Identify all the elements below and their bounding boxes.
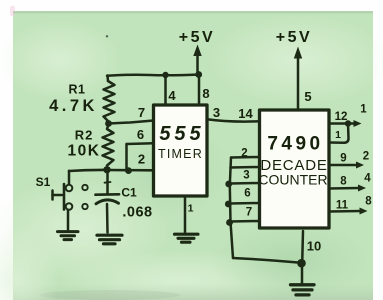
wire 7490 pin2 stub xyxy=(231,156,260,159)
svg-text:TIMER: TIMER xyxy=(158,147,203,161)
svg-text:1: 1 xyxy=(360,104,367,116)
wire pin6-pin2 connector xyxy=(125,144,128,170)
ground under 555 xyxy=(175,234,199,242)
wire R1 top stub xyxy=(106,76,109,82)
wire trigger node xyxy=(69,170,153,171)
svg-text:3: 3 xyxy=(213,105,220,120)
wire pin12 to pin1 loop xyxy=(330,124,349,143)
svg-text:2: 2 xyxy=(363,151,369,163)
S1 actuator bar xyxy=(63,184,66,210)
IC 7490 decade counter U2 xyxy=(260,110,330,228)
svg-text:4: 4 xyxy=(168,88,176,103)
wire 555 output to 7490 clock xyxy=(207,119,260,121)
S1 open contact mark bottom xyxy=(82,204,87,209)
svg-text:7: 7 xyxy=(246,207,252,219)
svg-text:1: 1 xyxy=(188,203,194,215)
svg-text:R1: R1 xyxy=(69,83,86,97)
power +5V arrow right (7490 pin5) xyxy=(294,47,302,111)
svg-text:R2: R2 xyxy=(75,128,94,143)
wire ground riser xyxy=(301,263,304,284)
svg-text:14: 14 xyxy=(238,106,253,121)
wire S1 drop xyxy=(68,171,71,184)
wire pin8 riser xyxy=(198,75,201,106)
svg-text:6: 6 xyxy=(244,188,250,200)
svg-text:5: 5 xyxy=(304,89,311,104)
IC 555 timer U1 xyxy=(154,105,208,196)
ground under 7490 xyxy=(291,285,315,295)
wire C1 top riser xyxy=(106,171,109,193)
C1 polarity tick xyxy=(105,181,111,184)
wire top +5V rail xyxy=(107,75,199,76)
svg-text:10: 10 xyxy=(307,239,321,254)
ground under C1 xyxy=(97,235,122,244)
svg-text:2: 2 xyxy=(138,152,145,167)
node B junction R2/C1/S1 xyxy=(103,166,110,173)
svg-text:12: 12 xyxy=(335,111,348,123)
svg-text:8: 8 xyxy=(365,196,372,208)
svg-text:7490: 7490 xyxy=(267,134,323,155)
svg-text:3: 3 xyxy=(243,170,249,182)
ground under S1 xyxy=(58,232,79,240)
wire 7490 pin8 output xyxy=(329,185,366,192)
wire C1 bottom riser xyxy=(106,204,109,233)
node junction ground xyxy=(297,259,306,268)
node junction bus pin7 xyxy=(225,201,232,208)
scan top edge xyxy=(13,11,373,14)
svg-text:11: 11 xyxy=(336,200,349,212)
wire 7490 pin10 riser xyxy=(301,231,304,263)
wire pin6 stub xyxy=(127,142,154,145)
svg-text:6: 6 xyxy=(137,127,144,142)
node junction rail/pin4 xyxy=(162,72,168,78)
svg-text:555: 555 xyxy=(159,123,204,145)
svg-text:8: 8 xyxy=(202,86,209,101)
svg-text:4: 4 xyxy=(364,173,371,185)
node junction bus pin6 xyxy=(225,181,232,188)
S1 plunger xyxy=(53,194,63,197)
wire reset bus to ground xyxy=(233,258,301,263)
wire 7490 pin6 stub xyxy=(230,182,260,185)
wire 7490 pin7 stub xyxy=(230,202,260,205)
svg-text:4.7K: 4.7K xyxy=(49,97,98,115)
resistor R1 xyxy=(104,81,115,122)
wire S1 to ground xyxy=(67,210,70,230)
wire pin7 stub xyxy=(109,121,154,124)
svg-text:1: 1 xyxy=(335,129,341,141)
wire 7490 pin9 output xyxy=(329,162,364,169)
paper mottling xyxy=(0,180,170,280)
wire 555 pin1 riser xyxy=(184,196,187,233)
svg-text:.068: .068 xyxy=(122,205,152,221)
svg-text:9: 9 xyxy=(340,153,346,165)
svg-text:7: 7 xyxy=(138,105,145,120)
svg-text:8: 8 xyxy=(340,176,347,188)
node A junction R1/R2 xyxy=(105,120,112,127)
svg-text:+5V: +5V xyxy=(179,29,215,46)
wire 7490 pin12 output xyxy=(329,120,362,127)
paper speck xyxy=(106,35,108,37)
wire pin4 riser xyxy=(164,75,167,105)
S1 contact bottom xyxy=(66,203,73,210)
node junction bus bottom xyxy=(226,219,233,226)
svg-text:10K: 10K xyxy=(68,143,101,160)
node junction pin12/pin1 xyxy=(345,120,351,126)
wire 7490 pin11 output xyxy=(329,208,368,215)
svg-text:S1: S1 xyxy=(36,175,51,189)
node junction rail/pin8 xyxy=(195,71,202,78)
scan bottom smudge xyxy=(13,284,373,300)
node junction pin2 branch xyxy=(125,167,132,174)
C1 plate top xyxy=(96,193,120,196)
resistor R2 xyxy=(103,126,114,166)
power +5V arrow left xyxy=(193,45,201,73)
svg-text:COUNTER: COUNTER xyxy=(258,172,327,188)
scan artifact pink xyxy=(10,6,15,16)
switch S1 pushbutton xyxy=(53,171,88,230)
wire 7490 pin3 stub xyxy=(231,166,260,169)
capacitor C1 xyxy=(96,171,120,233)
wire reset bus vertical xyxy=(230,158,233,259)
svg-text:+5V: +5V xyxy=(276,29,312,46)
S1 open contact mark top xyxy=(82,185,87,190)
C1 plate bottom curved xyxy=(96,200,119,204)
svg-text:C1: C1 xyxy=(121,186,137,200)
wire 7490 reset stub bottom xyxy=(230,220,260,223)
svg-text:2: 2 xyxy=(241,148,247,160)
S1 contact top xyxy=(66,185,73,192)
